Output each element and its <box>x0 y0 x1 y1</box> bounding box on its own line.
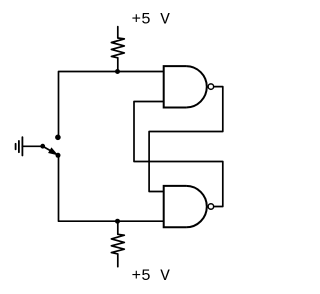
switch lower contact dot <box>56 153 61 158</box>
ground <box>16 137 23 155</box>
svg-text:+5 V: +5 V <box>132 267 171 285</box>
NAND gate U2 body <box>164 186 207 227</box>
wire switch upper contact up and right to gate U1 input A <box>59 72 164 138</box>
junction node bottom (R2 to wire) <box>115 219 120 224</box>
NAND gate U1 inverting bubble <box>208 84 214 90</box>
resistor R2 <box>111 221 124 267</box>
NAND gate U2 inverting bubble <box>208 204 214 210</box>
wire U2 output feedback to U1 bottom input <box>134 102 223 207</box>
junction node top (R1 to wire) <box>115 69 120 74</box>
resistor R1 <box>111 27 124 72</box>
wire U1 output feedback to U2 top input <box>149 87 223 192</box>
svg-text:+5 V: +5 V <box>132 11 171 29</box>
switch SW1 arm with arrowhead <box>43 146 58 155</box>
NAND gate U1 body <box>164 66 207 107</box>
switch upper contact dot <box>55 135 61 141</box>
switch pole dot <box>40 144 45 149</box>
wire ground to switch pole <box>22 145 42 147</box>
wire switch lower contact down and right to gate U2 input B <box>59 155 164 221</box>
